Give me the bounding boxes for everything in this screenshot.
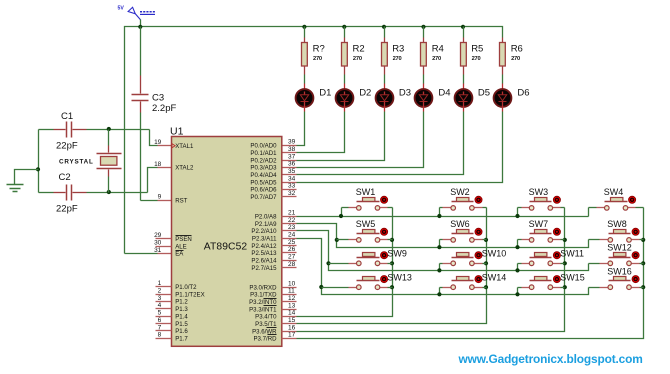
- svg-text:P1.0/T2: P1.0/T2: [175, 284, 197, 291]
- svg-text:P1.4: P1.4: [175, 314, 188, 321]
- svg-text:C2: C2: [59, 172, 71, 183]
- svg-text:29: 29: [154, 232, 162, 239]
- svg-text:38: 38: [288, 146, 296, 153]
- svg-text:5: 5: [158, 310, 162, 317]
- wire SW13 left/right leads: [322, 287, 393, 289]
- svg-text:www.Gadgetronicx.blogspot.com: www.Gadgetronicx.blogspot.com: [458, 352, 643, 366]
- svg-text:P1.5: P1.5: [175, 321, 188, 328]
- switch SW1: [349, 187, 388, 210]
- watermark: [458, 352, 643, 366]
- wire D1 cathode to P0.0 (pin 39): [282, 112, 305, 146]
- svg-text:SW15: SW15: [560, 273, 585, 283]
- svg-text:21: 21: [288, 209, 296, 216]
- svg-text:22pF: 22pF: [56, 204, 78, 215]
- svg-text:CRYSTAL: CRYSTAL: [59, 158, 94, 165]
- svg-text:39: 39: [288, 139, 296, 146]
- wire SW10 left/right leads: [440, 263, 487, 265]
- svg-text:25: 25: [288, 239, 296, 246]
- LED D1: [296, 84, 332, 112]
- wire R2 to D2: [344, 75, 346, 84]
- svg-text:14: 14: [288, 310, 296, 317]
- resistor R4 270: [421, 38, 444, 75]
- svg-text:P3.1/TXD: P3.1/TXD: [250, 292, 277, 299]
- svg-text:P3.5/T1: P3.5/T1: [255, 321, 277, 328]
- svg-text:R4: R4: [432, 44, 444, 55]
- wire column net P3.6/WR (pin 16): [282, 208, 567, 332]
- svg-text:R2: R2: [353, 44, 365, 55]
- svg-text:D4: D4: [438, 88, 450, 99]
- wire D4 cathode to P0.3 (pin 36): [282, 112, 424, 168]
- svg-text:22pF: 22pF: [56, 141, 78, 152]
- wire SW7 left/right leads: [518, 239, 565, 241]
- svg-text:R5: R5: [471, 44, 483, 55]
- resistor R? 270: [302, 38, 325, 75]
- wire D3 cathode to P0.2 (pin 37): [282, 112, 385, 161]
- wire SW4 left/right leads: [589, 207, 644, 209]
- svg-text:3: 3: [158, 295, 162, 302]
- wire SW12 left/right leads: [589, 263, 644, 265]
- svg-text:SW9: SW9: [387, 249, 407, 259]
- LED D2: [336, 84, 372, 112]
- wire row1 net P2.0/A8 (pin 21) to SW1-SW4: [282, 208, 589, 219]
- switch SW15: [522, 273, 585, 290]
- wire SW8 left/right leads: [589, 239, 644, 241]
- svg-text:6: 6: [158, 317, 162, 324]
- svg-text:D1: D1: [319, 88, 331, 99]
- svg-text:RST: RST: [175, 198, 187, 205]
- wire 5V rail to R?: [304, 27, 306, 38]
- svg-text:P0.7/AD7: P0.7/AD7: [250, 194, 277, 201]
- svg-text:18: 18: [154, 161, 162, 168]
- svg-text:27: 27: [288, 254, 296, 261]
- svg-text:P2.5/A13: P2.5/A13: [251, 250, 277, 257]
- svg-text:P1.1/T2EX: P1.1/T2EX: [175, 291, 204, 298]
- svg-text:13: 13: [288, 302, 296, 309]
- svg-text:26: 26: [288, 246, 296, 253]
- power +5V symbol: [118, 6, 156, 27]
- svg-text:P2.6/A14: P2.6/A14: [251, 258, 277, 265]
- svg-text:270: 270: [432, 56, 441, 62]
- ground: [7, 170, 39, 192]
- resistor R2 270: [342, 38, 365, 75]
- wire R? to D1: [304, 75, 306, 84]
- svg-text:SW16: SW16: [607, 266, 632, 276]
- switch SW16: [600, 266, 640, 289]
- svg-text:28: 28: [288, 261, 296, 268]
- svg-text:270: 270: [313, 56, 322, 62]
- svg-text:P1.7: P1.7: [175, 336, 188, 343]
- svg-text:D3: D3: [399, 88, 411, 99]
- svg-text:19: 19: [154, 139, 162, 146]
- svg-text:P0.6/AD6: P0.6/AD6: [250, 187, 277, 194]
- capacitor C1 22pF: [39, 111, 87, 152]
- wire R4 to D4: [423, 75, 425, 84]
- wire column net P3.7/RD (pin 17): [282, 208, 646, 339]
- wire SW2 left/right leads: [440, 207, 487, 209]
- svg-text:SW3: SW3: [529, 187, 549, 197]
- svg-text:P3.3/INT1: P3.3/INT1: [249, 306, 277, 313]
- svg-text:270: 270: [393, 56, 402, 62]
- svg-text:SW12: SW12: [607, 242, 632, 252]
- wire EA to +5V (pin 31): [125, 253, 172, 255]
- wire SW14 left/right leads: [440, 287, 487, 289]
- switch SW13: [349, 273, 412, 290]
- wire 5V rail to R3: [384, 27, 386, 38]
- svg-text:24: 24: [288, 232, 296, 239]
- wire 5V rail to R4: [423, 27, 425, 38]
- wire D5 cathode to P0.4 (pin 35): [282, 112, 464, 175]
- svg-text:XTAL1: XTAL1: [175, 143, 194, 150]
- wire column net P3.5/T1 (pin 15): [282, 208, 489, 324]
- LED D5: [455, 84, 490, 112]
- wire C1 to C2 (left leg): [36, 130, 40, 193]
- resistor R6 270: [500, 38, 523, 75]
- svg-text:XTAL2: XTAL2: [175, 165, 194, 172]
- svg-text:P2.7/A15: P2.7/A15: [251, 265, 277, 272]
- switch SW11: [522, 249, 585, 266]
- capacitor C3 2.2pF: [132, 27, 177, 115]
- wire SW15 left/right leads: [518, 287, 565, 289]
- svg-text:16: 16: [288, 324, 296, 331]
- svg-text:AT89C52: AT89C52: [204, 242, 248, 253]
- svg-text:SW5: SW5: [356, 219, 376, 229]
- LED D4: [415, 84, 451, 112]
- svg-text:P0.0/AD0: P0.0/AD0: [250, 143, 277, 150]
- LED D6: [494, 84, 530, 112]
- svg-text:30: 30: [154, 239, 162, 246]
- IC U1 AT89C52: [170, 126, 282, 347]
- svg-text:8: 8: [158, 332, 162, 339]
- svg-text:SW7: SW7: [529, 219, 549, 229]
- wire SW5 left/right leads: [337, 239, 393, 241]
- svg-text:P3.2/INT0: P3.2/INT0: [249, 299, 277, 306]
- switch SW12: [600, 242, 640, 265]
- svg-text:C1: C1: [61, 111, 73, 122]
- svg-text:D2: D2: [359, 88, 371, 99]
- resistor R3 270: [382, 38, 405, 75]
- svg-text:SW4: SW4: [604, 187, 624, 197]
- svg-text:4: 4: [158, 302, 162, 309]
- svg-text:R6: R6: [511, 44, 523, 55]
- svg-text:P2.1/A9: P2.1/A9: [255, 221, 277, 228]
- switch SW10: [443, 249, 507, 266]
- svg-text:31: 31: [154, 247, 162, 254]
- svg-text:SW11: SW11: [560, 249, 584, 259]
- switch SW9: [349, 249, 407, 266]
- svg-text:37: 37: [288, 153, 296, 160]
- svg-text:P2.4/A12: P2.4/A12: [251, 243, 277, 250]
- svg-text:17: 17: [288, 332, 296, 339]
- U1 right pin stubs, numbers and names: [249, 139, 296, 343]
- svg-text:34: 34: [288, 175, 296, 182]
- svg-text:D5: D5: [478, 88, 490, 99]
- svg-text:U1: U1: [170, 126, 184, 138]
- wire row3 net P2.2/A10 (pin 23) to SW9-SW12: [282, 231, 589, 273]
- svg-text:5V: 5V: [118, 6, 125, 12]
- U1 left pin stubs, numbers and names: [154, 139, 205, 342]
- svg-text:R?: R?: [313, 44, 325, 55]
- svg-text:1: 1: [158, 280, 162, 287]
- switch SW6: [443, 219, 483, 242]
- svg-text:SW6: SW6: [450, 219, 470, 229]
- svg-text:P1.6: P1.6: [175, 328, 188, 335]
- wire SW1 left/right leads: [342, 207, 393, 209]
- svg-text:P0.2/AD2: P0.2/AD2: [250, 157, 277, 164]
- wire column net P3.4/T0 (pin 14): [282, 208, 395, 317]
- wire D2 cathode to P0.1 (pin 38): [282, 112, 345, 153]
- svg-text:2: 2: [158, 288, 162, 295]
- svg-text:P2.3/A11: P2.3/A11: [252, 236, 277, 243]
- svg-text:22: 22: [288, 217, 296, 224]
- svg-text:P0.1/AD1: P0.1/AD1: [250, 150, 277, 157]
- wire C1 to XTAL1 (pin 19): [87, 127, 172, 146]
- wire R3 to D3: [384, 75, 386, 84]
- crystal X1: [59, 130, 122, 193]
- svg-text:P2.2/A10: P2.2/A10: [251, 228, 277, 235]
- svg-text:P1.2: P1.2: [175, 299, 188, 306]
- capacitor C2 22pF: [39, 172, 87, 215]
- svg-text:R3: R3: [392, 44, 404, 55]
- wire SW6 left/right leads: [440, 239, 487, 241]
- svg-text:270: 270: [353, 56, 362, 62]
- wire 5V rail to R5: [463, 27, 465, 38]
- wire C3 to RST (pin 9): [141, 113, 172, 201]
- svg-text:SW1: SW1: [356, 187, 376, 197]
- wire R5 to D5: [463, 75, 465, 84]
- switch SW2: [443, 187, 483, 210]
- svg-text:P2.0/A8: P2.0/A8: [255, 213, 277, 220]
- resistor R5 270: [461, 38, 484, 75]
- svg-text:270: 270: [472, 56, 481, 62]
- wire row2 net P2.1/A9 (pin 22) to SW5-SW8: [282, 224, 589, 250]
- svg-text:ALE: ALE: [175, 243, 187, 250]
- switch SW14: [443, 273, 507, 290]
- svg-text:PSEN: PSEN: [175, 236, 192, 243]
- svg-text:P3.7/RD: P3.7/RD: [253, 336, 277, 343]
- svg-text:SW10: SW10: [482, 249, 507, 259]
- svg-text:12: 12: [288, 295, 296, 302]
- wire row4 net P2.3/A11 (pin 24) to SW13-SW16: [282, 239, 589, 297]
- svg-text:7: 7: [158, 324, 162, 331]
- svg-text:P0.5/AD5: P0.5/AD5: [250, 179, 277, 186]
- svg-text:11: 11: [288, 288, 295, 295]
- svg-text:SW14: SW14: [482, 273, 507, 283]
- svg-text:35: 35: [288, 168, 296, 175]
- svg-text:32: 32: [288, 190, 296, 197]
- wire SW9 left/right leads: [329, 263, 393, 265]
- svg-text:36: 36: [288, 161, 296, 168]
- wire SW11 left/right leads: [518, 263, 565, 265]
- svg-text:P0.4/AD4: P0.4/AD4: [250, 172, 277, 179]
- svg-text:C3: C3: [152, 93, 164, 104]
- svg-text:P0.3/AD3: P0.3/AD3: [250, 165, 277, 172]
- switch SW3: [522, 187, 561, 210]
- svg-text:D6: D6: [517, 88, 529, 99]
- svg-text:P3.0/RXD: P3.0/RXD: [249, 284, 277, 291]
- svg-text:SW13: SW13: [387, 273, 412, 283]
- LED D3: [376, 84, 411, 112]
- svg-text:270: 270: [511, 56, 520, 62]
- wire SW16 left/right leads: [589, 287, 644, 289]
- wire 5V rail to R2: [344, 27, 346, 38]
- svg-text:9: 9: [158, 194, 162, 201]
- svg-text:SW8: SW8: [607, 219, 627, 229]
- svg-text:P3.4/T0: P3.4/T0: [255, 314, 277, 321]
- wire SW3 left/right leads: [518, 207, 565, 209]
- wire +5V rail (top, down-left to EA): [125, 25, 503, 254]
- wire C2 to XTAL2 (pin 18): [87, 168, 172, 195]
- svg-text:EA: EA: [175, 251, 184, 258]
- switch SW7: [522, 219, 561, 242]
- switch SW4: [597, 187, 636, 210]
- svg-text:SW2: SW2: [450, 187, 470, 197]
- wire D6 cathode to P0.5 (pin 34): [282, 112, 503, 183]
- svg-text:10: 10: [288, 280, 296, 287]
- svg-text:P1.3: P1.3: [175, 306, 188, 313]
- switch SW8: [600, 219, 640, 242]
- svg-text:2.2pF: 2.2pF: [152, 103, 176, 114]
- svg-text:33: 33: [288, 183, 296, 190]
- switch SW5: [349, 219, 388, 242]
- wire R6 to D6: [502, 75, 504, 84]
